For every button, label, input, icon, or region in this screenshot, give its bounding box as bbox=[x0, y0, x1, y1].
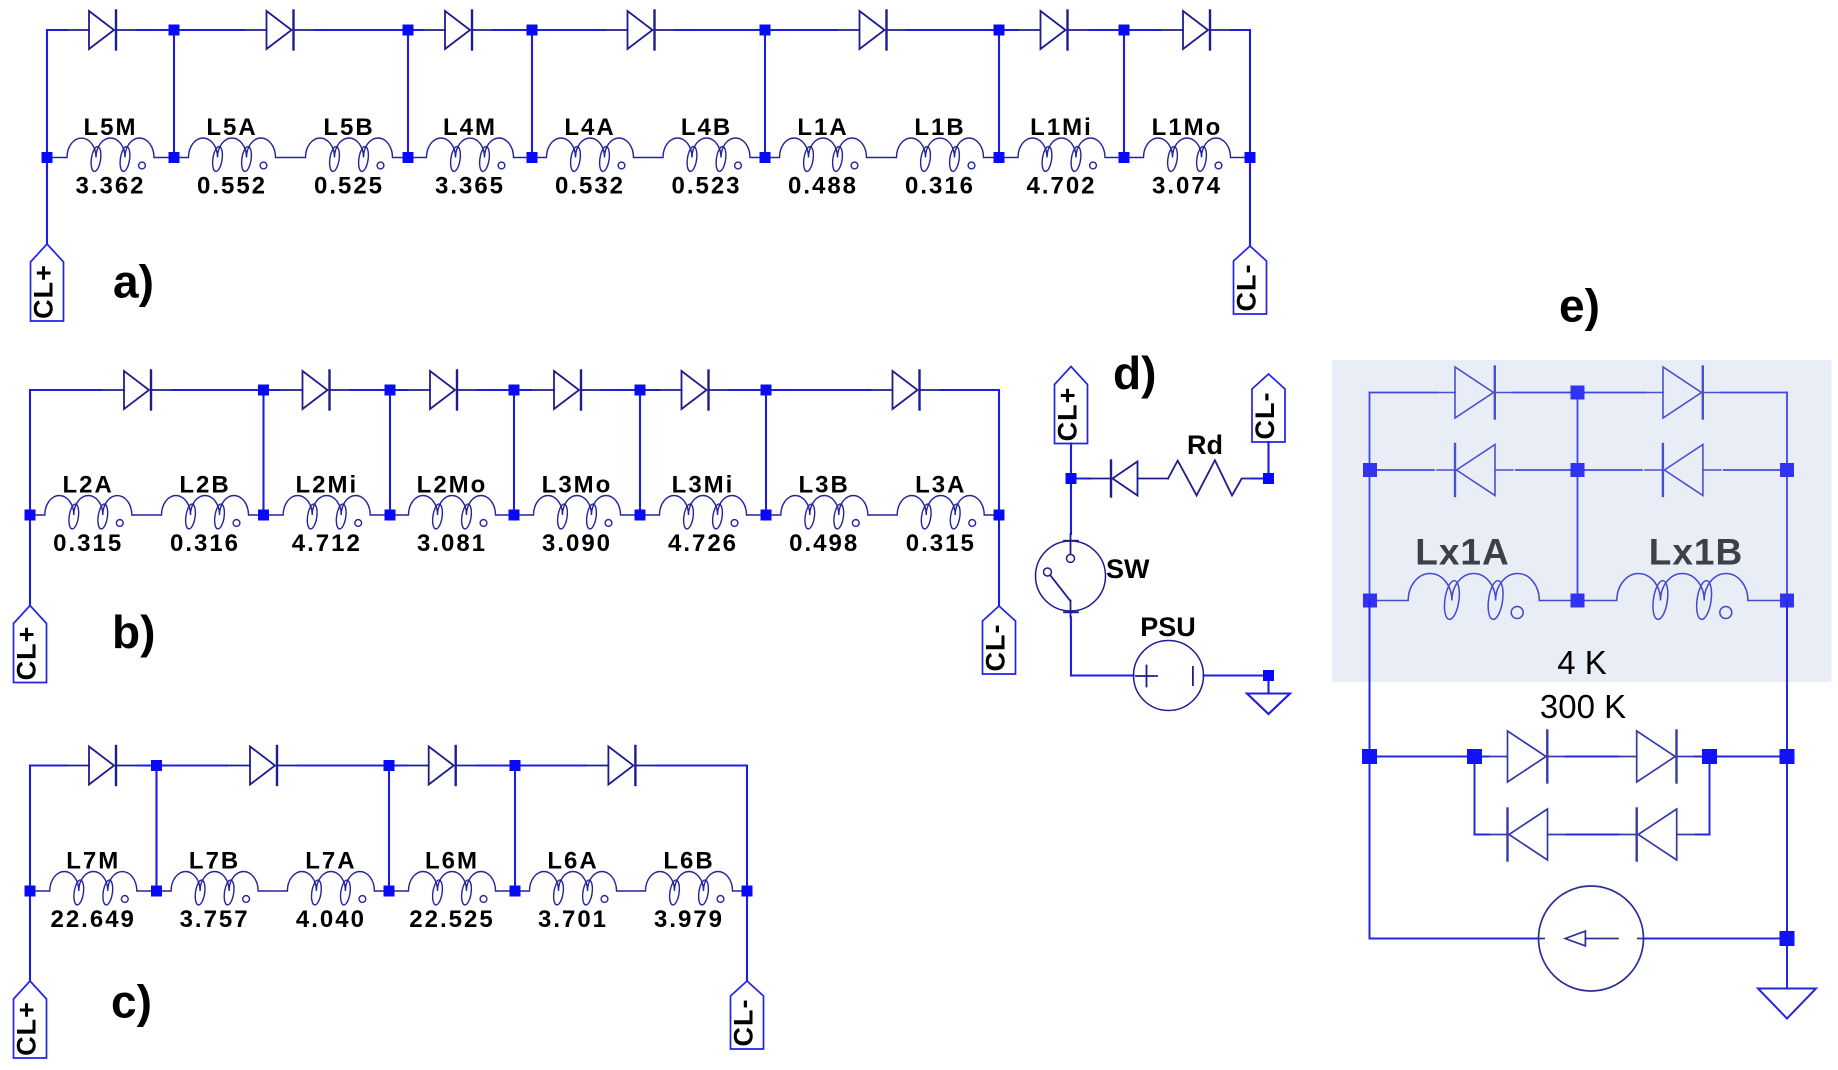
wire right vertical c bbox=[746, 766, 748, 982]
switch SW bbox=[1036, 534, 1151, 618]
ground (e) bbox=[1758, 989, 1816, 1019]
inductor L2Mi bbox=[264, 472, 391, 558]
svg-text:CL-: CL- bbox=[1232, 264, 1262, 312]
wire rail c2b bbox=[298, 764, 389, 766]
diode c1 bbox=[66, 746, 137, 785]
diode b3 bbox=[407, 371, 478, 410]
wire rail c3a bbox=[389, 764, 406, 766]
inductor L7A bbox=[273, 848, 389, 934]
wire e left vertical mid bbox=[1369, 601, 1371, 757]
diode c4 bbox=[585, 746, 656, 785]
svg-text:3.757: 3.757 bbox=[180, 906, 250, 933]
wire drop b x640 bbox=[639, 390, 641, 515]
svg-text:PSU: PSU bbox=[1140, 612, 1196, 642]
node rail b x514 bbox=[509, 385, 520, 396]
wire e row3 d bbox=[1695, 756, 1788, 758]
wire rail a1a bbox=[47, 29, 66, 31]
node rail a x765 bbox=[760, 25, 771, 36]
diode c3 bbox=[406, 746, 477, 785]
node row b x999 bbox=[994, 510, 1005, 521]
wire rail c3b bbox=[477, 764, 515, 766]
node rail b x766 bbox=[761, 385, 772, 396]
inductor L1A bbox=[765, 114, 881, 200]
node row a x47 bbox=[42, 152, 53, 163]
svg-text:L6A: L6A bbox=[547, 848, 598, 875]
svg-text:CL+: CL+ bbox=[12, 626, 42, 681]
node rail a x1124 bbox=[1119, 25, 1130, 36]
wire e to ground bbox=[1786, 939, 1788, 989]
svg-text:L1Mo: L1Mo bbox=[1152, 114, 1223, 141]
node row a x999 bbox=[994, 152, 1005, 163]
wire e left vertical top bbox=[1369, 393, 1371, 601]
wire rail b2b bbox=[351, 389, 391, 391]
svg-text:0.315: 0.315 bbox=[53, 530, 123, 557]
wire node to ground d bbox=[1267, 676, 1269, 694]
node d bottom bbox=[1263, 670, 1274, 681]
svg-text:L2B: L2B bbox=[179, 472, 230, 499]
wire drop a x765 bbox=[764, 30, 766, 158]
diode a4 bbox=[605, 11, 676, 50]
svg-text:L6M: L6M bbox=[425, 848, 479, 875]
diode e6 bbox=[1619, 731, 1695, 783]
diode e5 bbox=[1490, 731, 1566, 783]
wire drop c x156 bbox=[155, 766, 157, 892]
inductor Lx1A bbox=[1370, 532, 1578, 621]
wire e right vertical mid bbox=[1786, 601, 1788, 757]
diode a7 bbox=[1160, 11, 1231, 50]
wire rail c1a bbox=[30, 764, 66, 766]
port CL+ (d) bbox=[1053, 367, 1088, 444]
inductor L2A bbox=[30, 472, 147, 558]
wire drop c x389 bbox=[388, 766, 390, 892]
wire drop a x532 bbox=[531, 30, 533, 158]
svg-text:d): d) bbox=[1113, 347, 1156, 399]
wire right vertical a bbox=[1249, 30, 1251, 246]
node rail b x640 bbox=[635, 385, 646, 396]
svg-text:4.702: 4.702 bbox=[1026, 173, 1096, 200]
svg-text:4.726: 4.726 bbox=[668, 530, 738, 557]
diode e8 bbox=[1619, 809, 1695, 861]
wire drop a x408 bbox=[407, 30, 409, 158]
node row a x174 bbox=[169, 152, 180, 163]
resistor Rd bbox=[1168, 430, 1251, 495]
wire CL- to node (d) bbox=[1267, 442, 1269, 479]
inductor L5A bbox=[174, 114, 290, 200]
diode a3 bbox=[422, 11, 493, 50]
wire rail b1a bbox=[30, 389, 101, 391]
wire e rail1 d bbox=[1721, 392, 1787, 394]
svg-text:L4A: L4A bbox=[564, 114, 615, 141]
wire bottom d a bbox=[1071, 674, 1134, 676]
node d left bbox=[1066, 473, 1077, 484]
label 300 K bbox=[1540, 688, 1626, 725]
node row c x389 bbox=[384, 886, 395, 897]
node row a x532 bbox=[527, 152, 538, 163]
node e row3 left bbox=[1362, 749, 1377, 764]
svg-text:300 K: 300 K bbox=[1540, 688, 1626, 725]
wire e drop left bbox=[1474, 757, 1476, 835]
node e bottom right bbox=[1780, 931, 1795, 946]
node row c x30 bbox=[25, 886, 36, 897]
wire rail a5b bbox=[908, 29, 1000, 31]
diode e4 bbox=[1645, 444, 1721, 496]
node rail c x515 bbox=[510, 760, 521, 771]
wire e right vertical top bbox=[1786, 393, 1788, 601]
node e row2 center bbox=[1571, 463, 1585, 477]
node e rail1 bbox=[1571, 386, 1585, 400]
node d right bbox=[1263, 473, 1274, 484]
port CL+ (c) bbox=[12, 981, 47, 1058]
svg-text:3.074: 3.074 bbox=[1152, 173, 1222, 200]
svg-text:e): e) bbox=[1559, 280, 1600, 332]
wire rail a6a bbox=[999, 29, 1018, 31]
wire e bottom b bbox=[1644, 938, 1788, 940]
node row a x1250 bbox=[1245, 152, 1256, 163]
node rail a x999 bbox=[994, 25, 1005, 36]
inductor L6A bbox=[515, 848, 631, 934]
wire left vertical c bbox=[29, 766, 31, 982]
node row c x156 bbox=[151, 886, 162, 897]
svg-text:0.523: 0.523 bbox=[671, 173, 741, 200]
node row b x30 bbox=[25, 510, 36, 521]
svg-text:L7A: L7A bbox=[305, 848, 356, 875]
svg-text:3.090: 3.090 bbox=[542, 530, 612, 557]
wire rail a4a bbox=[532, 29, 605, 31]
wire e row3 b bbox=[1475, 756, 1490, 758]
wire rail a5a bbox=[765, 29, 837, 31]
svg-text:L3Mo: L3Mo bbox=[542, 472, 613, 499]
svg-text:L7B: L7B bbox=[189, 848, 240, 875]
svg-text:Rd: Rd bbox=[1187, 430, 1223, 460]
svg-text:0.488: 0.488 bbox=[788, 173, 858, 200]
svg-text:L2Mo: L2Mo bbox=[417, 472, 488, 499]
label d) bbox=[1113, 347, 1156, 399]
diode b1 bbox=[101, 371, 172, 410]
wire rail a2b bbox=[315, 29, 409, 31]
port CL+ (b) bbox=[12, 606, 47, 683]
wire drop a x174 bbox=[173, 30, 175, 158]
ground (d) bbox=[1247, 694, 1290, 715]
label 4 K bbox=[1557, 644, 1607, 681]
wire rail c2a bbox=[157, 764, 228, 766]
wire e bottom a bbox=[1370, 938, 1539, 940]
wire rail b3a bbox=[390, 389, 407, 391]
svg-text:L6B: L6B bbox=[663, 848, 714, 875]
node row c x747 bbox=[742, 886, 753, 897]
wire e right vertical low bbox=[1786, 757, 1788, 939]
wire rail a3b bbox=[493, 29, 532, 31]
wire rail b1b bbox=[172, 389, 264, 391]
wire rail c4b bbox=[656, 764, 747, 766]
svg-text:b): b) bbox=[112, 606, 155, 658]
svg-text:3.701: 3.701 bbox=[538, 906, 608, 933]
wire drop b x390 bbox=[389, 390, 391, 515]
svg-text:4 K: 4 K bbox=[1557, 644, 1607, 681]
wire rail b2a bbox=[264, 389, 280, 391]
wire drop b x514 bbox=[513, 390, 515, 515]
wire e row2 d bbox=[1724, 469, 1787, 471]
node e coil right bbox=[1780, 594, 1794, 608]
svg-text:4.712: 4.712 bbox=[292, 530, 362, 557]
inductor L4M bbox=[408, 114, 532, 200]
svg-text:L3Mi: L3Mi bbox=[672, 472, 735, 499]
wire rail b6a bbox=[766, 389, 870, 391]
diode a5 bbox=[837, 11, 908, 50]
inductor L2B bbox=[147, 472, 264, 558]
inductor L7M bbox=[30, 848, 157, 934]
inductor L5B bbox=[290, 114, 408, 200]
svg-text:L4M: L4M bbox=[443, 114, 497, 141]
svg-text:a): a) bbox=[113, 256, 154, 308]
wire e row2 b bbox=[1516, 469, 1578, 471]
inductor L7B bbox=[157, 848, 273, 934]
wire left vertical b bbox=[29, 390, 31, 606]
wire rail a1b bbox=[137, 29, 174, 31]
wire e rail1 c bbox=[1578, 392, 1646, 394]
voltage source PSU bbox=[1134, 612, 1204, 711]
wire rail b4a bbox=[514, 389, 531, 391]
svg-text:0.525: 0.525 bbox=[314, 173, 384, 200]
wire drop a x999 bbox=[998, 30, 1000, 158]
wire rail b4b bbox=[602, 389, 640, 391]
svg-text:CL-: CL- bbox=[729, 999, 759, 1047]
wire CL+ to node (d) bbox=[1070, 444, 1072, 479]
wire d branch a bbox=[1071, 477, 1090, 479]
label c) bbox=[111, 976, 152, 1028]
label a) bbox=[113, 256, 154, 308]
wire left vertical a bbox=[46, 30, 48, 244]
wire rail a2a bbox=[174, 29, 244, 31]
wire drop b x766 bbox=[765, 390, 767, 515]
node row b x640 bbox=[635, 510, 646, 521]
node e row2 right bbox=[1780, 463, 1794, 477]
svg-text:L3B: L3B bbox=[799, 472, 850, 499]
label b) bbox=[112, 606, 155, 658]
inductor L1B bbox=[881, 114, 999, 200]
node rail a x174 bbox=[169, 25, 180, 36]
svg-text:0.316: 0.316 bbox=[170, 530, 240, 557]
diode b2 bbox=[280, 371, 351, 410]
node e coil left bbox=[1363, 594, 1377, 608]
svg-text:L1B: L1B bbox=[914, 114, 965, 141]
node row a x408 bbox=[403, 152, 414, 163]
svg-text:CL+: CL+ bbox=[29, 264, 59, 319]
diode a2 bbox=[244, 11, 315, 50]
wire rail b5a bbox=[640, 389, 659, 391]
wire SW to bottom bbox=[1070, 618, 1072, 676]
svg-text:L5B: L5B bbox=[323, 114, 374, 141]
port CL- (a) bbox=[1232, 246, 1267, 314]
wire bottom d b bbox=[1204, 674, 1269, 676]
inductor L3Mi bbox=[640, 472, 766, 558]
wire rail c4a bbox=[515, 764, 585, 766]
wire e row3 c bbox=[1565, 756, 1618, 758]
node row b x514 bbox=[509, 510, 520, 521]
inductor L6M bbox=[389, 848, 515, 934]
node row b x390 bbox=[385, 510, 396, 521]
svg-text:L3A: L3A bbox=[915, 472, 966, 499]
diode a6 bbox=[1018, 11, 1089, 50]
wire e center vertical bbox=[1577, 393, 1579, 601]
svg-text:Lx1B: Lx1B bbox=[1649, 532, 1743, 573]
node e row3 n2 bbox=[1467, 749, 1482, 764]
diode b4 bbox=[531, 371, 602, 410]
svg-text:c): c) bbox=[111, 976, 152, 1028]
node rail c x389 bbox=[384, 760, 395, 771]
svg-text:Lx1A: Lx1A bbox=[1415, 532, 1509, 573]
svg-text:SW: SW bbox=[1106, 554, 1150, 584]
svg-text:0.316: 0.316 bbox=[905, 173, 975, 200]
diode b6 bbox=[870, 371, 941, 410]
node row b x263 bbox=[258, 510, 269, 521]
svg-text:L4B: L4B bbox=[681, 114, 732, 141]
svg-text:22.649: 22.649 bbox=[50, 906, 135, 933]
inductor L3B bbox=[766, 472, 883, 558]
node rail b x390 bbox=[385, 385, 396, 396]
diode e1 bbox=[1437, 367, 1513, 419]
shaded 4K region bbox=[1332, 360, 1832, 682]
svg-text:CL+: CL+ bbox=[1053, 387, 1083, 442]
diode c2 bbox=[227, 746, 298, 785]
port CL- (d) bbox=[1250, 374, 1285, 442]
node row a x765 bbox=[760, 152, 771, 163]
inductor Lx1B bbox=[1578, 532, 1788, 621]
wire e row4 b bbox=[1567, 834, 1619, 836]
wire right vertical b bbox=[998, 390, 1000, 606]
label e) bbox=[1559, 280, 1600, 332]
wire rail b3b bbox=[478, 389, 514, 391]
node rail b x263 bbox=[258, 385, 269, 396]
wire rail b6b bbox=[941, 389, 1000, 391]
inductor L3Mo bbox=[514, 472, 640, 558]
diode e3 bbox=[1437, 444, 1513, 496]
inductor L6B bbox=[631, 848, 747, 934]
wire rail a7b bbox=[1231, 29, 1250, 31]
svg-text:0.315: 0.315 bbox=[906, 530, 976, 557]
svg-text:L2A: L2A bbox=[63, 472, 114, 499]
wire rail a3a bbox=[408, 29, 422, 31]
diode a1 bbox=[66, 11, 137, 50]
svg-text:L7M: L7M bbox=[66, 848, 120, 875]
svg-text:L1Mi: L1Mi bbox=[1030, 114, 1093, 141]
wire drop a x1124 bbox=[1123, 30, 1125, 158]
node row a x1124 bbox=[1119, 152, 1130, 163]
svg-text:3.979: 3.979 bbox=[654, 906, 724, 933]
svg-text:CL-: CL- bbox=[1250, 392, 1280, 440]
svg-text:0.532: 0.532 bbox=[555, 173, 625, 200]
wire e row2 c bbox=[1578, 469, 1642, 471]
diode Dd bbox=[1090, 461, 1168, 497]
svg-text:3.365: 3.365 bbox=[435, 173, 505, 200]
wire e rail1 b bbox=[1513, 392, 1578, 394]
port CL- (c) bbox=[729, 981, 764, 1049]
wire rail c1b bbox=[137, 764, 157, 766]
wire d branch b bbox=[1251, 477, 1269, 479]
wire e row3 a bbox=[1370, 756, 1475, 758]
wire e drop right bbox=[1709, 757, 1711, 835]
svg-text:0.498: 0.498 bbox=[789, 530, 859, 557]
svg-text:CL+: CL+ bbox=[12, 1001, 42, 1056]
port CL+ (a) bbox=[29, 244, 64, 321]
wire e row4 a bbox=[1475, 834, 1490, 836]
svg-text:CL-: CL- bbox=[981, 624, 1011, 672]
current source bbox=[1539, 886, 1657, 991]
diode e2 bbox=[1645, 367, 1721, 419]
inductor L4A bbox=[532, 114, 648, 200]
wire e row4 c bbox=[1696, 834, 1710, 836]
wire rail a4b bbox=[676, 29, 766, 31]
wire rail a6b bbox=[1089, 29, 1125, 31]
svg-text:3.362: 3.362 bbox=[75, 173, 145, 200]
wire node to SW bbox=[1070, 479, 1072, 535]
node row c x515 bbox=[510, 886, 521, 897]
inductor L4B bbox=[648, 114, 765, 200]
node e row2 left bbox=[1363, 463, 1377, 477]
diode b5 bbox=[659, 371, 730, 410]
inductor L1Mi bbox=[999, 114, 1124, 200]
svg-text:4.040: 4.040 bbox=[296, 906, 366, 933]
node e row3 right bbox=[1780, 749, 1795, 764]
wire e left vertical low bbox=[1369, 757, 1371, 939]
wire e rail1 a bbox=[1370, 392, 1438, 394]
svg-text:L5A: L5A bbox=[206, 114, 257, 141]
node e coil center bbox=[1571, 594, 1585, 608]
svg-text:L5M: L5M bbox=[84, 114, 138, 141]
wire e row2 a bbox=[1370, 469, 1434, 471]
node row b x766 bbox=[761, 510, 772, 521]
node rail a x532 bbox=[527, 25, 538, 36]
wire rail b5b bbox=[730, 389, 767, 391]
wire drop c x515 bbox=[514, 766, 516, 892]
wire rail a7a bbox=[1124, 29, 1160, 31]
node e row3 n3 bbox=[1702, 749, 1717, 764]
svg-text:L2Mi: L2Mi bbox=[295, 472, 358, 499]
svg-text:0.552: 0.552 bbox=[197, 173, 267, 200]
inductor L2Mo bbox=[390, 472, 514, 558]
diode e7 bbox=[1490, 809, 1566, 861]
svg-text:L1A: L1A bbox=[797, 114, 848, 141]
wire drop b x263 bbox=[262, 390, 264, 515]
node rail c x156 bbox=[151, 760, 162, 771]
port CL- (b) bbox=[981, 606, 1016, 674]
inductor L3A bbox=[883, 472, 1000, 558]
svg-text:3.081: 3.081 bbox=[417, 530, 487, 557]
node rail a x408 bbox=[403, 25, 414, 36]
inductor L1Mo bbox=[1124, 114, 1250, 200]
inductor L5M bbox=[47, 114, 174, 200]
svg-text:22.525: 22.525 bbox=[409, 906, 494, 933]
